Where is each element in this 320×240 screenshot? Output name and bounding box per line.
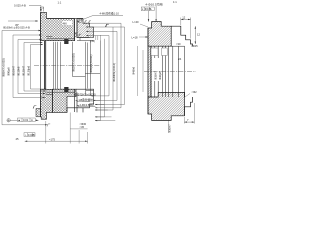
datum box on top edge	[79, 19, 82, 22]
set screw upper	[64, 39, 68, 44]
svg-text:24: 24	[178, 57, 181, 61]
svg-text:45°: 45°	[15, 23, 19, 27]
joint gap between housing and gland	[47, 19, 84, 41]
svg-text:Φ110h6: Φ110h6	[17, 66, 21, 76]
svg-text:L=40: L=40	[133, 20, 140, 24]
right view bore top edge full	[148, 45, 185, 47]
bottom-left feature control frame with leader	[7, 118, 39, 122]
tiny end dim	[96, 36, 98, 40]
right view centerline	[144, 70, 196, 72]
svg-text:≈45: ≈45	[80, 125, 85, 129]
svg-text:M6: M6	[63, 21, 67, 25]
svg-text:12: 12	[197, 32, 200, 36]
svg-text:Φ85H7(+0.035): Φ85H7(+0.035)	[2, 58, 6, 77]
svg-text:Φ180h6(-0.012): Φ180h6(-0.012)	[112, 63, 116, 82]
svg-text:4.5: 4.5	[40, 6, 44, 10]
set screw lower	[64, 87, 68, 92]
surface finish mark left of flange bottom	[33, 106, 36, 109]
svg-text:≈Φ2: ≈Φ2	[192, 90, 198, 94]
svg-text:B: B	[33, 133, 35, 137]
svg-text:12: 12	[182, 15, 185, 19]
svg-text:4-M6均布锤1:10: 4-M6均布锤1:10	[100, 12, 120, 16]
bracket arrows	[39, 30, 48, 126]
svg-text:A: A	[150, 7, 152, 11]
svg-text:Φ85js6(±0.011): Φ85js6(±0.011)	[89, 55, 93, 73]
right view lower-right steps	[184, 97, 192, 116]
gland upper (single hatch part)	[77, 19, 94, 38]
bolt protrusion bottom-left	[36, 109, 41, 117]
svg-text:45: 45	[16, 137, 19, 141]
inner shaft verticals in bore	[54, 41, 101, 96]
svg-text:Φ30H7: Φ30H7	[168, 124, 172, 133]
svg-text:Φ35H7: Φ35H7	[154, 71, 158, 80]
svg-text:≈30: ≈30	[176, 42, 181, 46]
tick near flange bottom	[47, 124, 50, 127]
small boxes near centerline	[151, 48, 158, 56]
second FCF lower	[24, 133, 35, 137]
svg-text:Φ62H7(+0.030): Φ62H7(+0.030)	[72, 53, 76, 72]
svg-text:1:1: 1:1	[58, 1, 62, 5]
4.5 dim above flange	[40, 7, 43, 12]
svg-text:Φ90js6: Φ90js6	[7, 67, 11, 76]
right view left face	[147, 28, 149, 114]
right view bore verticals	[151, 46, 185, 97]
svg-text:Φ125H7: Φ125H7	[22, 65, 26, 76]
finish marks above gland step	[85, 21, 88, 23]
flange left face line	[40, 12, 42, 116]
centerline	[34, 65, 100, 67]
svg-text:L=18: L=18	[132, 35, 139, 39]
sleeve joint lines upper/lower	[46, 37, 94, 95]
rotated dim texts left	[2, 58, 31, 77]
svg-text:Φ48h6: Φ48h6	[132, 66, 136, 75]
bottom dim approx 175	[25, 140, 88, 142]
lower right band outline	[67, 89, 94, 108]
bottom mid brackets verticals area between views	[95, 35, 115, 121]
rotated dim texts right side	[72, 53, 116, 82]
svg-text:0.01: 0.01	[23, 118, 29, 122]
svg-text:1:1: 1:1	[173, 0, 177, 4]
right view upper-right step outline (not hatched)	[171, 26, 192, 46]
right view upper hatched block	[148, 22, 193, 121]
surface finish check on line	[105, 24, 109, 27]
right view lower hatched block	[148, 92, 184, 120]
svg-text:≈Φ25: ≈Φ25	[191, 44, 198, 48]
svg-text:≈175: ≈175	[49, 137, 55, 141]
white label box on upper hatch	[63, 21, 73, 25]
right view top-right dim	[181, 18, 191, 39]
left view lower body band	[53, 89, 77, 112]
svg-text:(45): (45)	[90, 39, 95, 43]
left view flange lower hatched	[41, 89, 53, 119]
svg-text:Φ30js6: Φ30js6	[158, 71, 162, 80]
rotated label boxes in right bore	[154, 58, 163, 81]
svg-text:4-Φ10.5均布: 4-Φ10.5均布	[145, 2, 162, 7]
svg-text:Φ130js6: Φ130js6	[27, 65, 31, 76]
finish mark near gland lip	[79, 34, 82, 36]
flange bore wall verticals	[45, 41, 46, 90]
svg-text:A: A	[31, 118, 33, 122]
svg-text:0.025 A-B: 0.025 A-B	[14, 4, 26, 8]
left view flange upper hatched	[41, 12, 75, 40]
top-left small dim	[8, 20, 38, 22]
svg-text:Φ100H7: Φ100H7	[12, 65, 16, 76]
right view left lip sectioned full height	[148, 46, 152, 97]
right view FCF	[141, 7, 154, 11]
